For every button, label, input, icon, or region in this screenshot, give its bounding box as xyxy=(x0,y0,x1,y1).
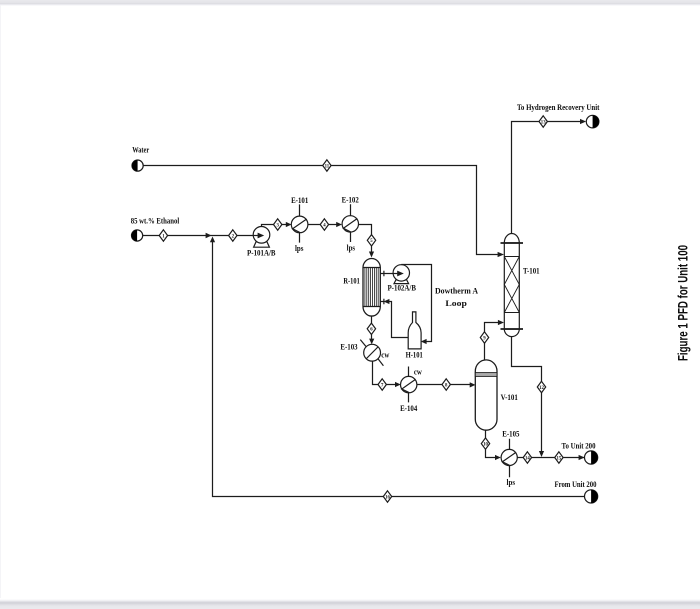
arrow into E-103 xyxy=(369,339,374,345)
svg-text:lps: lps xyxy=(347,243,356,253)
stream diamond 16 xyxy=(383,491,391,502)
svg-text:P-102A/B: P-102A/B xyxy=(387,282,416,292)
svg-text:T-101: T-101 xyxy=(523,266,540,276)
stream input From Unit 200 xyxy=(585,490,598,503)
wire T-101 bottoms to Unit 200 junction xyxy=(512,337,542,452)
wire T-101 overhead to hydrogen recovery xyxy=(512,122,581,234)
wire E-105 to To Unit 200 xyxy=(517,457,584,459)
svg-text:From Unit 200: From Unit 200 xyxy=(555,479,597,489)
stream diamond 7 xyxy=(378,379,386,390)
wire water feed line to T-101 xyxy=(143,166,498,255)
stream diamond 15 xyxy=(555,452,563,463)
svg-text:10: 10 xyxy=(483,442,488,447)
arrow at recycle junction (flow right) xyxy=(206,233,212,239)
svg-text:Dowtherm A: Dowtherm A xyxy=(435,286,479,296)
pump P-102A/B xyxy=(393,265,410,284)
stream diamond 6 xyxy=(367,323,375,334)
svg-text:lps: lps xyxy=(507,477,516,487)
svg-text:E-102: E-102 xyxy=(342,195,359,205)
svg-text:85 wt.% Ethanol: 85 wt.% Ethanol xyxy=(131,216,180,226)
svg-text:H-101: H-101 xyxy=(406,349,423,359)
svg-text:To Hydrogen Recovery Unit: To Hydrogen Recovery Unit xyxy=(517,102,600,112)
svg-text:E-103: E-103 xyxy=(340,341,357,351)
arrow into E-105 xyxy=(495,455,501,460)
stream input 85 wt% Ethanol xyxy=(132,230,143,241)
svg-text:11: 11 xyxy=(325,164,330,169)
svg-text:Loop: Loop xyxy=(445,298,467,308)
wire P-102 discharge to H-101 xyxy=(401,265,431,342)
svg-text:E-105: E-105 xyxy=(502,429,519,439)
stream diamond 1 xyxy=(159,230,167,241)
svg-text:15: 15 xyxy=(557,456,562,461)
arrow into T-101 lower feed xyxy=(498,320,504,325)
wire pump discharge to E-101 xyxy=(262,225,287,227)
wire V-101 bottoms to E-105 xyxy=(486,430,496,457)
svg-text:E-101: E-101 xyxy=(291,195,308,205)
wire H-101 to R-101 lower nozzle xyxy=(389,302,409,338)
svg-text:13: 13 xyxy=(541,120,546,125)
svg-text:V-101: V-101 xyxy=(501,392,518,402)
stream diamond 14 xyxy=(523,452,531,463)
wire R-101 upper nozzle to P-102 xyxy=(384,273,394,275)
heat exchanger E-102 xyxy=(342,204,358,242)
arrow into H-101 xyxy=(421,339,427,344)
arrow into To Unit 200 connector xyxy=(579,455,585,460)
stream diamond 4 xyxy=(320,219,328,230)
stream diamond 8 xyxy=(442,379,450,390)
heat exchanger E-104 xyxy=(401,367,417,403)
arrow into H2 recovery connector xyxy=(580,119,586,124)
arrow into T-101 upper feed xyxy=(498,252,504,257)
svg-text:14: 14 xyxy=(525,456,530,461)
wire E-102 to R-101 top xyxy=(359,225,372,252)
svg-text:E-104: E-104 xyxy=(400,403,418,413)
stream diamond 3 xyxy=(274,219,282,230)
stream diamond 10 xyxy=(481,438,489,449)
arrow into R-101 lower nozzle xyxy=(384,299,390,304)
heat exchanger E-103 xyxy=(360,340,383,366)
stream output To Unit 200 xyxy=(585,451,598,464)
stream input Water xyxy=(132,160,143,171)
wire ethanol feed line xyxy=(143,235,257,237)
column T-101 xyxy=(501,234,524,337)
stream diamond 12 xyxy=(537,381,545,392)
arrow into E-102 xyxy=(336,222,342,227)
fired heater H-101 (bottle) xyxy=(408,312,421,349)
arrow up into feed junction xyxy=(210,237,215,243)
wire V-101 overhead to T-101 bottom feed xyxy=(485,323,499,360)
heat exchanger E-105 xyxy=(501,439,517,478)
pump P-101A/B xyxy=(253,227,270,248)
svg-text:To Unit 200: To Unit 200 xyxy=(562,440,596,450)
stream diamond 9 xyxy=(480,332,488,343)
stream diamond 5 xyxy=(367,235,375,246)
svg-text:16: 16 xyxy=(385,495,390,500)
svg-text:R-101: R-101 xyxy=(343,276,359,286)
arrow into E-101 xyxy=(286,222,292,227)
svg-text:Water: Water xyxy=(132,145,149,155)
vessel V-101 xyxy=(475,360,497,430)
svg-text:Figure 1 PFD for Unit 100: Figure 1 PFD for Unit 100 xyxy=(675,245,691,361)
wire E-104 to V-101 xyxy=(417,384,470,386)
arrow into R-101 xyxy=(369,252,374,258)
wire From Unit 200 recycle xyxy=(213,242,585,497)
svg-text:12: 12 xyxy=(539,386,544,391)
arrow into E-104 xyxy=(395,382,401,387)
svg-text:lps: lps xyxy=(295,243,304,253)
reactor R-101 xyxy=(363,259,384,317)
svg-text:cw: cw xyxy=(381,349,390,359)
stream diamond 2 xyxy=(229,230,237,241)
stream diamond 13 xyxy=(539,116,547,127)
svg-text:cw: cw xyxy=(414,366,423,376)
arrow down at junction xyxy=(539,451,544,457)
svg-text:P-101A/B: P-101A/B xyxy=(247,247,276,257)
stream diamond 11 (water) xyxy=(323,160,331,171)
wire E-103 to E-104 xyxy=(373,361,396,384)
arrow into V-101 xyxy=(470,382,476,387)
stream output To Hydrogen Recovery Unit xyxy=(586,115,599,128)
wire R-101 bottom to E-103 xyxy=(371,317,373,340)
heat exchanger E-101 xyxy=(291,204,308,242)
wire E-101 to E-102 xyxy=(308,224,337,226)
